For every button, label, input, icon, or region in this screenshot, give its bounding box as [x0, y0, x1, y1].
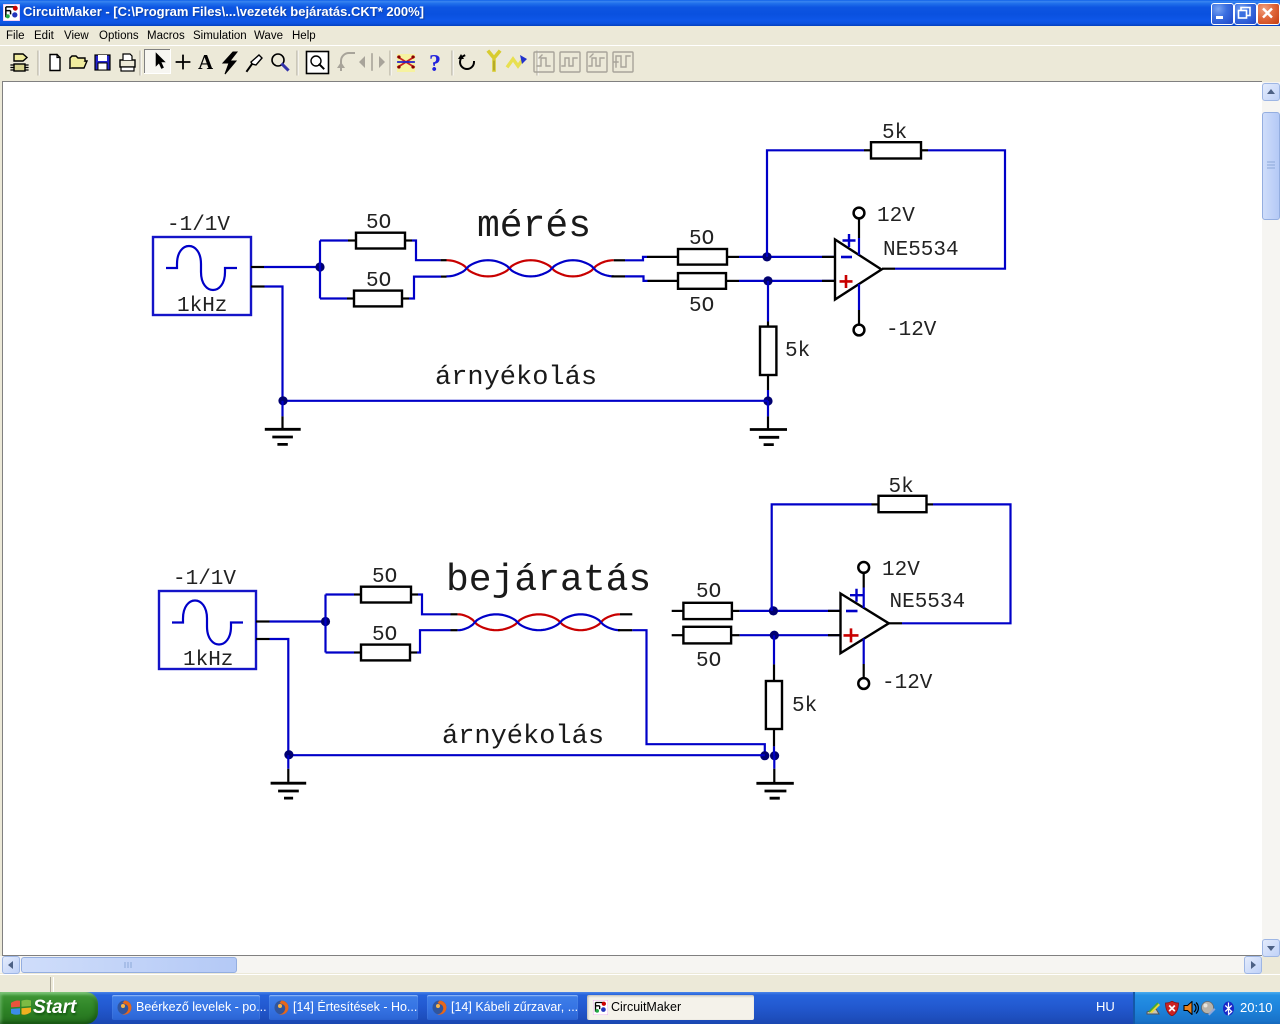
menu bar — [0, 26, 1280, 45]
pin R10 left open — [672, 634, 684, 636]
pin R5 left — [864, 149, 871, 151]
sep — [389, 51, 391, 75]
node H junction — [770, 751, 779, 760]
ground symbol left upper — [265, 429, 301, 444]
svg-text:1kHz: 1kHz — [183, 649, 233, 672]
arrow cursor — [156, 53, 165, 69]
svg-text:-12V: -12V — [882, 672, 933, 695]
sep — [536, 51, 538, 75]
pin R11 right — [927, 503, 934, 505]
pin R4 left — [648, 280, 679, 282]
twisted pair lower: blue wire — [458, 614, 620, 630]
horizontal scrollbar — [0, 956, 1262, 973]
doc magnify button — [307, 52, 329, 74]
wire R1 to pair top — [412, 241, 441, 261]
wire R2 to pair bottom — [409, 277, 441, 299]
resistor R6 5k to ground — [760, 327, 776, 375]
node I junction — [769, 606, 778, 615]
wire feedback right down to output — [895, 150, 1005, 268]
pin V2 out A — [256, 620, 270, 622]
svg-text:5O: 5O — [372, 566, 397, 589]
U2 plus marker red — [844, 628, 859, 642]
wire top branch to R7 — [326, 593, 355, 595]
pin R6 bottom — [767, 375, 769, 390]
toolbar — [0, 45, 1280, 81]
op-amp U2 triangle — [841, 594, 889, 654]
node F junction — [321, 617, 330, 626]
resistor R12 5k to ground — [766, 681, 782, 729]
ground symbol right lower — [756, 783, 793, 798]
tray speaker icon — [1183, 1001, 1199, 1015]
wire pair to R3 — [625, 257, 647, 260]
resistor R7 50 — [361, 587, 411, 603]
wire bracket left vertical — [319, 241, 321, 299]
vertical scrollbar — [1262, 82, 1280, 956]
svg-text:NE5534: NE5534 — [890, 591, 966, 614]
node E junction — [278, 396, 287, 405]
resistor R8 50 — [361, 645, 410, 661]
svg-text:5O: 5O — [689, 295, 714, 318]
resistor R2 50 — [354, 291, 402, 307]
wire feedback up — [767, 150, 864, 257]
pin R1 right — [405, 239, 412, 241]
wire R12 to node H — [773, 746, 775, 755]
pin R3 right — [727, 256, 739, 258]
ground stem left lower — [287, 769, 289, 782]
pin R8 right — [410, 651, 417, 653]
signal source V2 box — [159, 591, 256, 669]
node C junction — [763, 276, 772, 285]
pin R2 left — [347, 297, 354, 299]
svg-text:mérés: mérés — [477, 205, 591, 248]
resistor R3 50 — [678, 249, 727, 265]
pin R5 right — [921, 149, 928, 151]
svg-text:5k: 5k — [889, 476, 914, 499]
wire V1 B down to ground node E — [265, 287, 283, 401]
tray pen icon — [1146, 1002, 1162, 1016]
pin R10 right — [731, 634, 740, 636]
wire bottom branch to R8 — [326, 651, 355, 653]
pin R1 left — [348, 239, 356, 241]
sep — [451, 51, 453, 75]
U1 supply pin down — [858, 284, 860, 310]
wire bracket left vertical lower — [324, 595, 326, 653]
open folder — [70, 61, 87, 68]
wire node C down to R6 — [767, 281, 769, 322]
connections icon — [397, 54, 415, 72]
svg-text:5O: 5O — [366, 212, 391, 235]
node D junction — [763, 396, 772, 405]
op-amp U1 triangle — [835, 240, 882, 300]
U1 vplus marker blue — [843, 234, 856, 247]
sine wave symbol lower — [172, 601, 243, 645]
twisted pair upper: blue wire — [447, 260, 614, 276]
wire R4 to op-amp plus — [739, 280, 835, 282]
twisted pair upper: red wire — [447, 260, 614, 276]
tray ball-pen icon — [1201, 1001, 1216, 1016]
svg-text:12V: 12V — [882, 559, 920, 582]
wire arnyekolas lower — [289, 754, 765, 756]
probe — [251, 55, 262, 65]
node G junction — [760, 751, 769, 760]
svg-text:?: ? — [429, 51, 441, 77]
U1 minus marker — [841, 256, 852, 259]
wire top branch to R1 — [320, 239, 348, 241]
svg-text:5O: 5O — [366, 270, 391, 293]
resistor R4 50 — [678, 273, 726, 289]
scope buttons gray — [534, 52, 633, 72]
wire node D to ground — [767, 401, 769, 416]
svg-text:árnyékolás: árnyékolás — [442, 722, 604, 752]
pin R8 left — [354, 651, 361, 653]
svg-text:5O: 5O — [689, 228, 714, 251]
pin R2 right — [402, 297, 409, 299]
wave probe — [508, 59, 523, 66]
node K junction — [284, 750, 293, 759]
pin U1 output — [882, 268, 895, 270]
U1 supply pin up — [858, 219, 860, 239]
terminal -12V circle lower — [858, 678, 869, 689]
wire R3 to op-amp minus — [739, 256, 835, 258]
svg-text:1kHz: 1kHz — [177, 295, 227, 318]
resistor R5 5k feedback — [871, 142, 921, 158]
svg-text:NE5534: NE5534 — [883, 239, 959, 262]
pin R12 top — [773, 664, 775, 681]
twisted pair lower: red wire — [458, 614, 620, 630]
U2 supply pin up — [863, 573, 865, 588]
wire R7 to pair top lower — [418, 595, 451, 615]
wire feedback up lower — [772, 504, 872, 611]
ground stem left upper — [281, 416, 283, 428]
wire R6 to ground node D — [767, 390, 769, 401]
wire node E to ground — [281, 401, 283, 417]
U1 plus marker red — [840, 275, 853, 288]
pin R6 top — [767, 322, 769, 327]
start button — [0, 992, 98, 1024]
print — [120, 60, 135, 67]
pin pair top left lower — [451, 613, 458, 615]
terminal -12V circle — [854, 325, 865, 336]
resistor R10 50 — [683, 627, 731, 644]
svg-text:5k: 5k — [792, 695, 817, 718]
wire V2 to node F — [270, 620, 326, 622]
svg-text:5O: 5O — [696, 581, 721, 604]
svg-text:árnyékolás: árnyékolás — [435, 363, 597, 393]
U2 vplus marker blue — [850, 589, 863, 602]
pin R12 bottom — [773, 729, 775, 746]
pin U2 output — [888, 622, 902, 624]
wire feedback right down to output lower — [902, 504, 1011, 623]
resistor R11 5k feedback — [879, 496, 927, 512]
sep — [296, 51, 298, 75]
ground stem right lower — [773, 769, 775, 783]
ground symbol right upper — [750, 430, 787, 445]
sep — [139, 51, 141, 75]
pin pair bottom right lower — [618, 629, 632, 631]
pin pair top right — [614, 259, 625, 261]
pin pair top right lower open — [620, 613, 632, 615]
save floppy — [95, 55, 110, 70]
pin R3 left — [647, 256, 678, 258]
pin R4 right — [726, 280, 739, 282]
pin R7 left — [354, 593, 361, 595]
pin pair top left — [441, 259, 447, 261]
tray bluetooth icon — [1222, 1001, 1235, 1016]
chip icon — [14, 54, 27, 61]
node J junction — [770, 631, 779, 640]
wire pair bottom down to shield node — [632, 630, 765, 756]
svg-text:A: A — [198, 50, 214, 74]
plus tool — [177, 56, 190, 69]
tray shield icon — [1165, 1001, 1179, 1016]
pin pair bottom right — [612, 275, 626, 277]
node B junction — [762, 252, 771, 261]
signal source V1 box — [153, 237, 251, 315]
wire R8 to pair bottom lower — [417, 630, 451, 652]
wire V2 B down to node K — [270, 639, 289, 755]
sine wave symbol — [166, 246, 237, 290]
U2 supply pin down — [863, 639, 865, 665]
rotate gray — [341, 53, 354, 70]
pin R11 left — [872, 503, 879, 505]
wire pair to R4 — [625, 276, 648, 281]
lightning — [223, 52, 237, 74]
wire below node H to ground — [773, 756, 775, 769]
pin V1 out B — [251, 285, 265, 287]
ground symbol left lower — [271, 783, 307, 798]
svg-text:-1/1V: -1/1V — [167, 214, 230, 237]
pin pair bottom left lower — [451, 629, 458, 631]
svg-text:5k: 5k — [882, 122, 907, 145]
node A junction — [315, 262, 324, 271]
new doc — [51, 55, 59, 59]
pin R9 left open — [672, 610, 684, 612]
U2 minus marker — [846, 610, 858, 613]
pin R9 right — [732, 610, 740, 612]
taskbar — [0, 992, 1280, 1024]
wire arnyekolas upper — [283, 400, 768, 402]
wire R9 to op-amp minus lower — [740, 610, 841, 612]
wire node J down to R12 — [773, 635, 775, 664]
svg-text:5O: 5O — [696, 650, 721, 673]
pin V2 out B — [256, 638, 270, 640]
wrench — [492, 61, 496, 70]
svg-text:12V: 12V — [877, 205, 915, 228]
wire R10 to op-amp plus lower — [740, 634, 841, 636]
terminal 12V circle lower — [858, 562, 869, 573]
svg-text:bejáratás: bejáratás — [446, 559, 651, 602]
resistor R9 50 — [683, 603, 732, 619]
wire node K to ground — [287, 755, 289, 769]
ground stem right upper — [767, 416, 769, 428]
terminal 12V circle — [854, 208, 865, 219]
svg-text:5O: 5O — [372, 624, 397, 647]
window title bar — [0, 0, 1280, 26]
sep — [37, 51, 39, 75]
pin pair bottom left — [441, 276, 447, 278]
wire V1 to node A — [264, 266, 320, 268]
pin V1 out A — [251, 266, 264, 268]
mirror gray — [359, 56, 385, 68]
zoom — [272, 54, 284, 66]
svg-text:-1/1V: -1/1V — [173, 568, 236, 591]
pin R7 right — [411, 593, 418, 595]
reset circ arrow — [460, 55, 474, 69]
svg-text:5k: 5k — [785, 340, 810, 363]
resistor R1 50 — [356, 233, 405, 249]
pressed select button — [145, 50, 171, 74]
svg-text:-12V: -12V — [886, 319, 937, 342]
status bar — [0, 974, 1280, 993]
wire bottom branch to R2 — [320, 297, 347, 299]
